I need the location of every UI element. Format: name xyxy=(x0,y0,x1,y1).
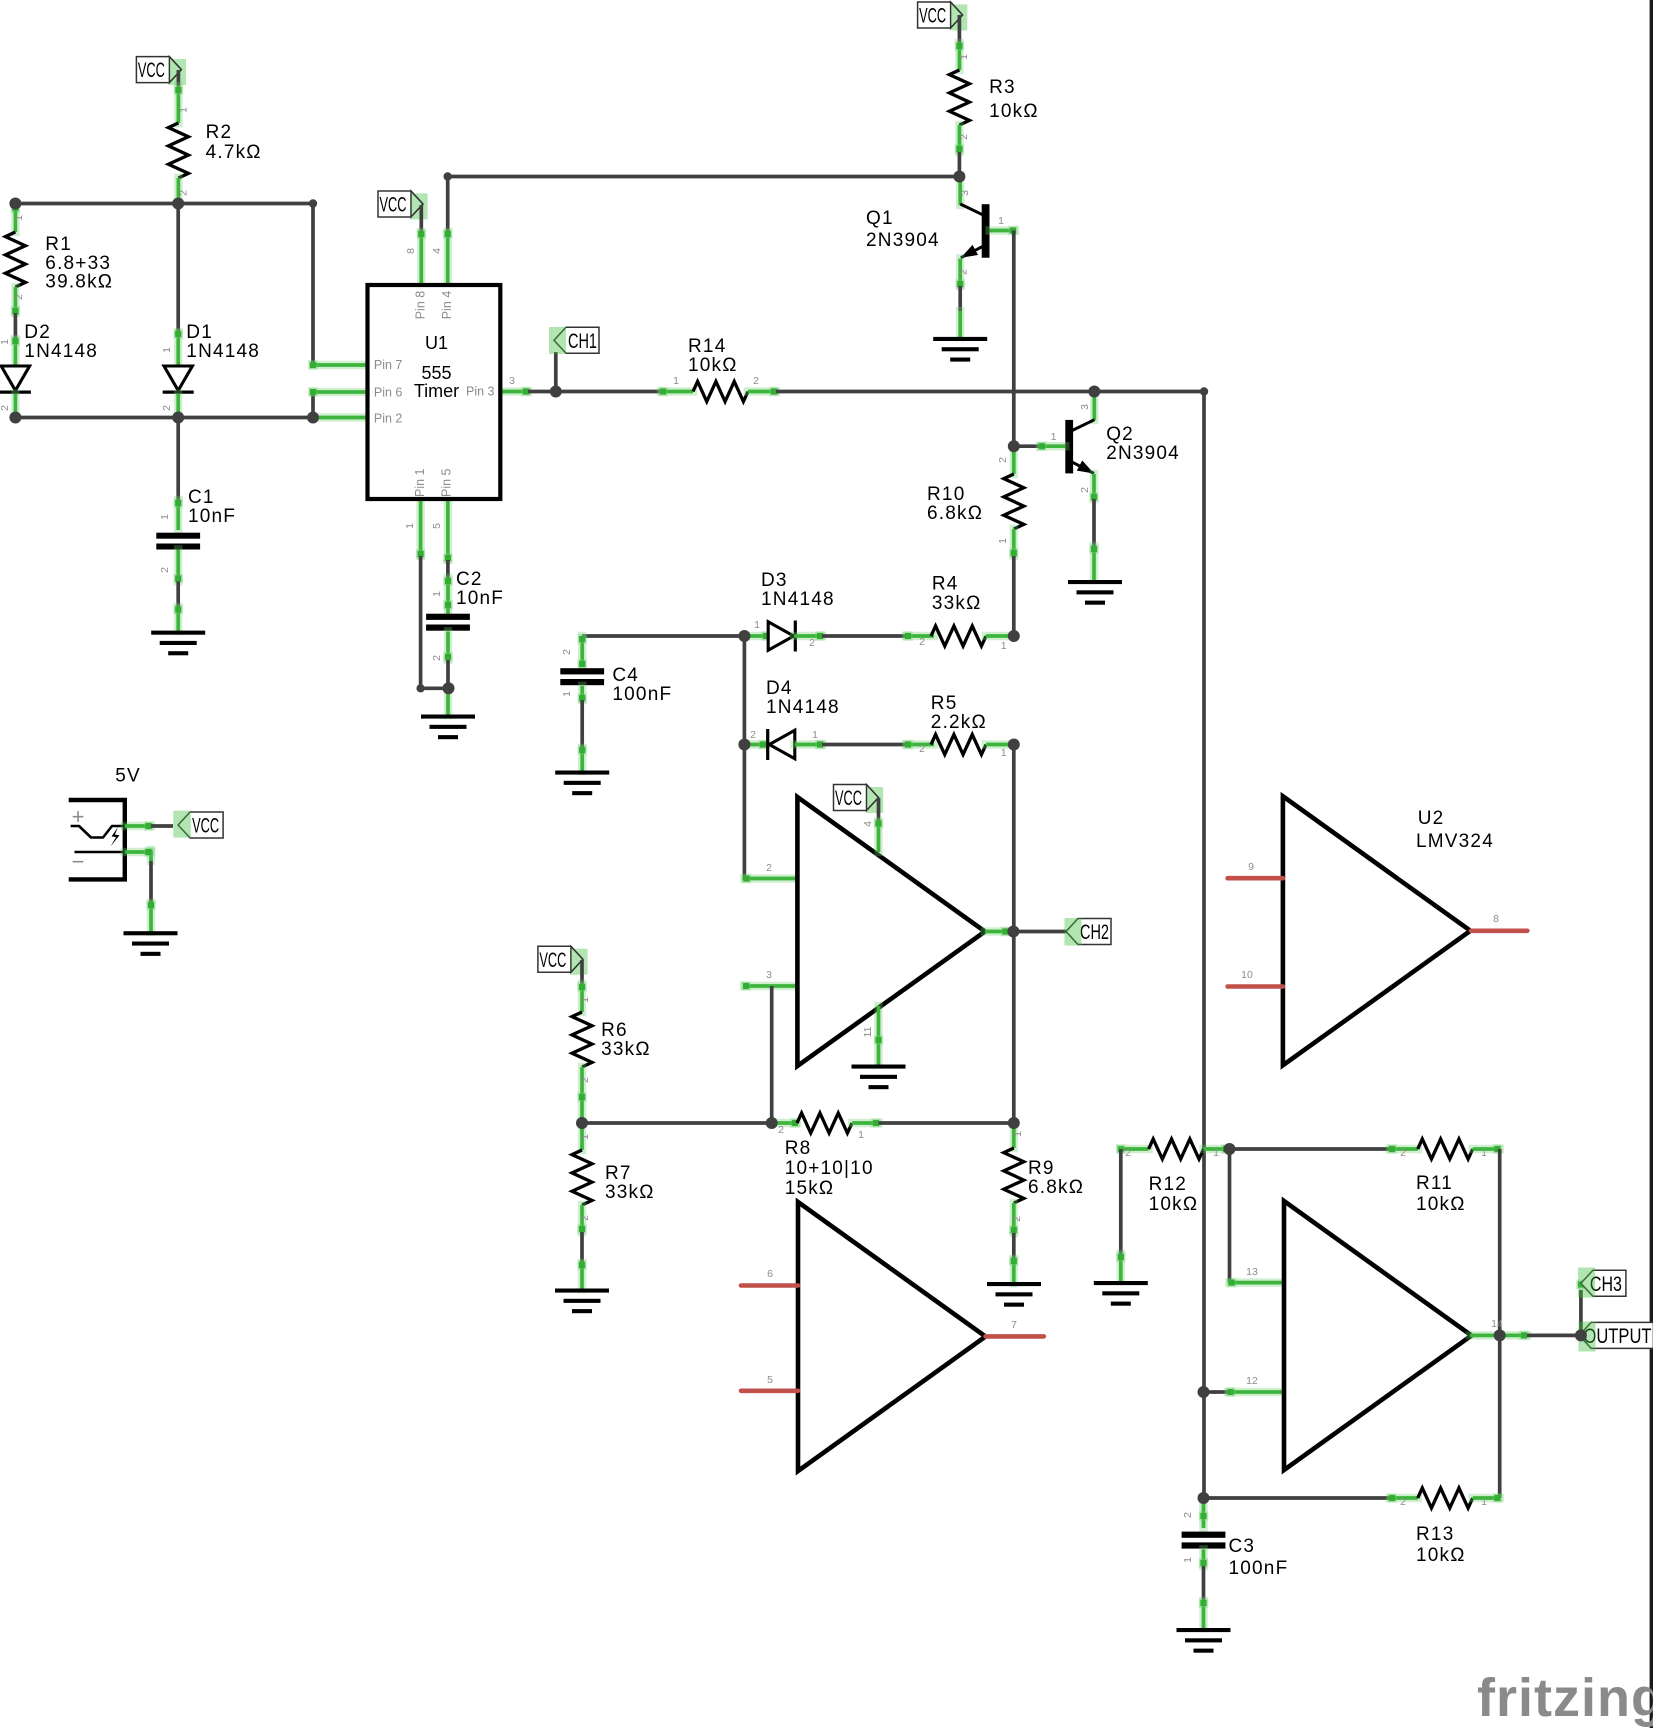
svg-text:D1: D1 xyxy=(186,322,213,343)
svg-text:1: 1 xyxy=(579,997,591,1003)
svg-text:Pin 4: Pin 4 xyxy=(440,291,454,320)
svg-text:CH1: CH1 xyxy=(568,330,597,353)
svg-text:1: 1 xyxy=(858,1129,864,1141)
svg-text:R12: R12 xyxy=(1149,1174,1187,1195)
svg-text:6.8kΩ: 6.8kΩ xyxy=(927,503,983,524)
svg-text:2.2kΩ: 2.2kΩ xyxy=(931,712,987,733)
svg-text:VCC: VCC xyxy=(539,949,566,972)
svg-text:R5: R5 xyxy=(931,693,958,714)
svg-text:R3: R3 xyxy=(989,77,1016,98)
svg-text:15kΩ: 15kΩ xyxy=(785,1178,835,1199)
svg-text:1: 1 xyxy=(997,538,1009,544)
svg-text:33kΩ: 33kΩ xyxy=(601,1039,651,1060)
svg-text:14: 14 xyxy=(1491,1318,1503,1330)
svg-text:Pin 6: Pin 6 xyxy=(374,386,403,400)
svg-text:2: 2 xyxy=(919,743,925,755)
svg-text:8: 8 xyxy=(1493,913,1499,925)
svg-text:1N4148: 1N4148 xyxy=(24,341,98,362)
svg-text:C3: C3 xyxy=(1229,1536,1256,1557)
svg-text:2: 2 xyxy=(1011,1216,1023,1222)
svg-text:Pin 5: Pin 5 xyxy=(439,468,453,497)
svg-text:D3: D3 xyxy=(761,570,788,591)
svg-text:Pin 8: Pin 8 xyxy=(414,291,428,320)
svg-text:R7: R7 xyxy=(605,1163,632,1184)
svg-text:2: 2 xyxy=(753,375,759,387)
svg-text:10kΩ: 10kΩ xyxy=(1149,1194,1199,1215)
svg-text:2: 2 xyxy=(750,729,756,741)
svg-text:VCC: VCC xyxy=(138,59,165,82)
svg-text:R2: R2 xyxy=(206,122,233,143)
svg-text:13: 13 xyxy=(1246,1266,1258,1278)
svg-text:1: 1 xyxy=(13,215,25,221)
svg-text:39.8kΩ: 39.8kΩ xyxy=(45,272,113,293)
svg-text:fritzing: fritzing xyxy=(1477,1668,1653,1728)
svg-text:1: 1 xyxy=(1213,1147,1219,1159)
svg-text:2N3904: 2N3904 xyxy=(1106,443,1180,464)
svg-text:4.7kΩ: 4.7kΩ xyxy=(206,142,262,163)
svg-text:2: 2 xyxy=(1182,1512,1194,1518)
svg-text:D2: D2 xyxy=(24,322,51,343)
svg-text:10: 10 xyxy=(1241,969,1253,981)
svg-text:1: 1 xyxy=(1012,1131,1024,1137)
svg-text:Timer: Timer xyxy=(414,381,459,401)
svg-text:Pin 3: Pin 3 xyxy=(466,385,495,399)
svg-text:2: 2 xyxy=(1079,487,1091,493)
svg-text:1: 1 xyxy=(0,339,11,345)
svg-text:Q2: Q2 xyxy=(1106,424,1134,445)
svg-text:555: 555 xyxy=(421,363,451,383)
svg-text:R11: R11 xyxy=(1416,1173,1453,1194)
svg-text:2: 2 xyxy=(958,134,970,140)
svg-text:Q1: Q1 xyxy=(866,208,894,229)
svg-text:1: 1 xyxy=(579,1134,591,1140)
svg-text:100nF: 100nF xyxy=(612,684,672,705)
svg-text:10kΩ: 10kΩ xyxy=(1416,1194,1466,1215)
svg-text:9: 9 xyxy=(1248,861,1254,873)
svg-text:11: 11 xyxy=(862,1026,874,1037)
svg-text:1: 1 xyxy=(404,523,416,529)
svg-text:1N4148: 1N4148 xyxy=(761,589,835,610)
svg-text:R10: R10 xyxy=(927,484,965,505)
svg-text:VCC: VCC xyxy=(192,815,219,838)
svg-text:1: 1 xyxy=(1001,640,1007,652)
svg-text:5: 5 xyxy=(767,1374,773,1386)
svg-text:U1: U1 xyxy=(425,333,448,353)
svg-text:1: 1 xyxy=(754,619,760,631)
svg-text:VCC: VCC xyxy=(919,5,946,28)
svg-text:5: 5 xyxy=(431,523,443,529)
svg-text:D4: D4 xyxy=(766,678,793,699)
svg-text:7: 7 xyxy=(1011,1319,1017,1331)
svg-text:R13: R13 xyxy=(1416,1524,1454,1545)
svg-text:1: 1 xyxy=(561,691,573,697)
svg-text:R8: R8 xyxy=(785,1138,812,1159)
svg-text:1: 1 xyxy=(673,375,679,387)
svg-text:1: 1 xyxy=(161,347,173,353)
svg-text:2: 2 xyxy=(579,1077,591,1083)
svg-text:2: 2 xyxy=(178,190,190,196)
svg-text:2: 2 xyxy=(958,269,970,275)
svg-text:6.8kΩ: 6.8kΩ xyxy=(1028,1177,1084,1198)
svg-text:2: 2 xyxy=(1400,1496,1406,1508)
svg-text:R14: R14 xyxy=(688,336,726,357)
svg-text:1: 1 xyxy=(159,514,171,520)
svg-text:5V: 5V xyxy=(115,766,141,787)
svg-text:1: 1 xyxy=(958,54,970,60)
svg-text:2: 2 xyxy=(919,636,925,648)
svg-text:1N4148: 1N4148 xyxy=(186,341,260,362)
svg-text:R9: R9 xyxy=(1028,1158,1055,1179)
svg-text:2: 2 xyxy=(0,405,11,411)
svg-text:2: 2 xyxy=(13,294,25,300)
svg-text:2: 2 xyxy=(1400,1147,1406,1159)
svg-text:1: 1 xyxy=(178,107,190,113)
svg-text:10nF: 10nF xyxy=(188,506,236,527)
svg-text:2: 2 xyxy=(766,862,772,874)
svg-text:2: 2 xyxy=(1125,1147,1131,1159)
svg-text:VCC: VCC xyxy=(380,194,407,217)
svg-text:3: 3 xyxy=(766,969,772,981)
svg-text:2: 2 xyxy=(809,637,815,649)
svg-text:10kΩ: 10kΩ xyxy=(688,355,738,376)
svg-text:8: 8 xyxy=(405,248,417,254)
svg-text:4: 4 xyxy=(431,248,443,254)
svg-text:1: 1 xyxy=(431,591,443,597)
svg-text:33kΩ: 33kΩ xyxy=(932,593,982,614)
svg-text:1N4148: 1N4148 xyxy=(766,697,840,718)
svg-text:6: 6 xyxy=(767,1268,773,1280)
svg-text:10nF: 10nF xyxy=(456,588,504,609)
svg-text:R4: R4 xyxy=(932,574,959,595)
svg-text:1: 1 xyxy=(998,215,1004,227)
svg-text:2: 2 xyxy=(997,457,1009,463)
svg-text:33kΩ: 33kΩ xyxy=(605,1182,655,1203)
svg-text:2N3904: 2N3904 xyxy=(866,230,940,251)
svg-text:LMV324: LMV324 xyxy=(1416,831,1494,852)
svg-text:4: 4 xyxy=(862,821,874,827)
svg-text:C2: C2 xyxy=(456,569,483,590)
svg-text:C1: C1 xyxy=(188,487,215,508)
svg-text:VCC: VCC xyxy=(835,787,862,810)
svg-text:Pin 2: Pin 2 xyxy=(374,412,403,426)
svg-text:CH2: CH2 xyxy=(1080,921,1109,944)
svg-text:1: 1 xyxy=(812,729,818,741)
svg-text:Pin 7: Pin 7 xyxy=(374,358,403,372)
svg-text:R6: R6 xyxy=(601,1020,628,1041)
svg-text:2: 2 xyxy=(159,567,171,573)
svg-text:2: 2 xyxy=(431,655,443,661)
svg-text:12: 12 xyxy=(1246,1375,1258,1387)
svg-text:2: 2 xyxy=(161,405,173,411)
svg-text:1: 1 xyxy=(1481,1147,1487,1159)
svg-text:1: 1 xyxy=(1481,1496,1487,1508)
svg-text:Pin 1: Pin 1 xyxy=(413,468,427,497)
svg-text:1: 1 xyxy=(1051,431,1057,443)
svg-text:2: 2 xyxy=(579,1215,591,1221)
svg-text:R1: R1 xyxy=(45,234,72,255)
svg-text:2: 2 xyxy=(778,1124,784,1136)
svg-text:1: 1 xyxy=(1001,747,1007,759)
svg-text:1: 1 xyxy=(1182,1557,1194,1563)
svg-text:3: 3 xyxy=(509,375,515,387)
svg-text:10+10|10: 10+10|10 xyxy=(785,1158,874,1179)
svg-text:2: 2 xyxy=(561,649,573,655)
svg-text:C4: C4 xyxy=(612,665,639,686)
svg-text:10kΩ: 10kΩ xyxy=(1416,1545,1466,1566)
svg-text:3: 3 xyxy=(959,190,971,196)
svg-text:3: 3 xyxy=(1079,404,1091,410)
svg-text:10kΩ: 10kΩ xyxy=(989,101,1039,122)
svg-text:100nF: 100nF xyxy=(1229,1558,1289,1579)
svg-text:U2: U2 xyxy=(1418,808,1445,829)
